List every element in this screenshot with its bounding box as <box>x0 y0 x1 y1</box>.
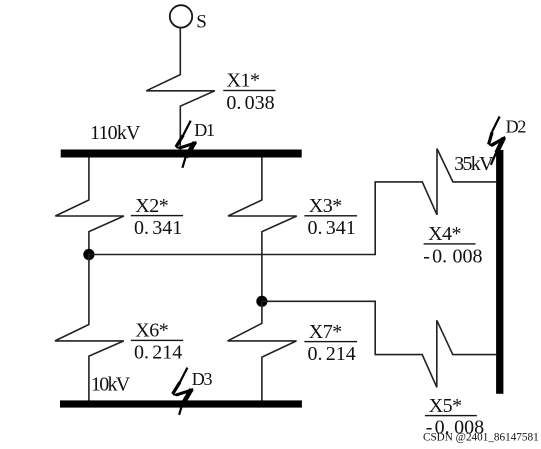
svg-text:X3*: X3* <box>309 195 342 217</box>
svg-text:-0.008: -0.008 <box>423 245 482 267</box>
node junction dot A <box>83 249 94 260</box>
source generator circle S <box>170 5 192 27</box>
svg-text:D2: D2 <box>506 117 526 137</box>
bus 35kV vertical <box>496 150 503 394</box>
svg-text:0.341: 0.341 <box>134 217 182 239</box>
svg-text:X4*: X4* <box>428 223 461 245</box>
svg-text:X7*: X7* <box>309 321 342 343</box>
wire middle lower branch with reactor X7 zigzag <box>228 301 297 400</box>
svg-text:D1: D1 <box>194 120 214 140</box>
node junction dot B <box>256 296 267 307</box>
bus 110kV <box>61 150 302 158</box>
wire source stem and reactor X1 zigzag <box>146 28 215 150</box>
fraction label X1* / 0.038 <box>223 70 275 114</box>
bus 10kV <box>60 400 302 407</box>
svg-text:35kV: 35kV <box>454 153 494 175</box>
wire node B to X5 branch and reactor X5 zigzag <box>262 301 496 387</box>
fraction label X2* / 0.341 <box>131 195 183 239</box>
wire node A to X4 branch and reactor X4 zigzag <box>89 149 496 255</box>
svg-text:0.214: 0.214 <box>134 342 182 364</box>
svg-text:CSDN @2401_86147581: CSDN @2401_86147581 <box>423 432 539 444</box>
svg-text:0.038: 0.038 <box>226 92 274 114</box>
fraction label X4* / -0.008 <box>423 223 482 267</box>
svg-text:110kV: 110kV <box>90 122 141 144</box>
fault bolt D2 <box>488 117 506 165</box>
wire middle branch with reactor X3 zigzag <box>228 157 297 301</box>
svg-text:X6*: X6* <box>135 320 168 342</box>
svg-text:10kV: 10kV <box>91 374 131 396</box>
wire left branch with reactor X2 zigzag <box>55 157 124 254</box>
fault bolt D3 <box>172 368 194 415</box>
wire left lower branch with reactor X6 zigzag <box>55 255 124 401</box>
svg-text:X2*: X2* <box>135 195 168 217</box>
svg-text:X1*: X1* <box>227 70 260 92</box>
svg-text:D3: D3 <box>192 369 213 389</box>
svg-text:S: S <box>196 12 207 33</box>
svg-text:0.341: 0.341 <box>308 217 356 239</box>
fault bolt D1 <box>175 121 197 168</box>
svg-text:X5*: X5* <box>429 395 462 417</box>
fraction label X6* / 0.214 <box>131 320 183 364</box>
fraction label X3* / 0.341 <box>304 195 357 239</box>
fraction label X7* / 0.214 <box>304 321 357 365</box>
fraction label X5* / -0.008 <box>425 395 484 438</box>
svg-text:0.214: 0.214 <box>308 343 356 365</box>
